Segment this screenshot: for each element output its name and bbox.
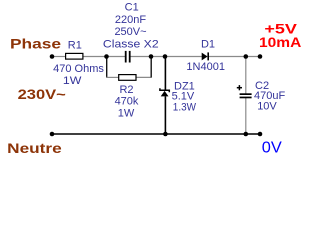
wire R2 loop left horizontal: [106, 76, 119, 78]
capacitor C1 plates: [125, 51, 127, 63]
svg-text:C1: C1: [125, 2, 139, 14]
node +5V terminal: [258, 54, 263, 59]
wire R2 loop right vertical: [150, 57, 152, 78]
resistor R1: [66, 53, 83, 59]
node junction DZ1 bottom: [163, 132, 168, 137]
wire top: C1 right plate to D1: [130, 56, 202, 58]
svg-text:10V: 10V: [257, 101, 277, 113]
svg-text:1W: 1W: [63, 75, 82, 87]
wire R2 loop right horizontal: [136, 76, 152, 78]
svg-text:470 Ohms: 470 Ohms: [53, 63, 104, 75]
svg-text:D1: D1: [201, 39, 215, 51]
wire top: D1 to +5V terminal: [209, 56, 260, 58]
wire bottom: Neutre rail: [52, 133, 260, 135]
node Neutre terminal: [50, 132, 55, 137]
svg-text:R1: R1: [68, 40, 82, 52]
wire top: R1 to C1 left plate: [83, 56, 126, 58]
node junction C2 bottom: [244, 132, 249, 137]
resistor R2: [119, 75, 136, 81]
svg-text:Phase: Phase: [10, 35, 61, 51]
svg-text:Neutre: Neutre: [7, 140, 62, 156]
svg-text:250V~: 250V~: [114, 26, 146, 38]
zener diode DZ1: [160, 88, 169, 92]
wire DZ1 bottom lead: [164, 96, 166, 134]
node junction R1/C1/R2: [104, 54, 109, 59]
C2 plus sign: [237, 87, 242, 89]
svg-text:1N4001: 1N4001: [186, 61, 225, 73]
capacitor C2 plates: [240, 93, 252, 95]
node Phase terminal: [50, 54, 55, 59]
svg-text:10mA: 10mA: [259, 34, 301, 50]
wire top: Phase terminal to R1: [52, 56, 66, 58]
diode D1: [202, 53, 208, 61]
svg-text:230V~: 230V~: [18, 86, 66, 102]
svg-text:Classe X2: Classe X2: [103, 38, 159, 50]
svg-text:1.3W: 1.3W: [173, 101, 197, 113]
node junction DZ1 top: [163, 54, 168, 59]
wire R2 loop left vertical: [106, 57, 108, 78]
wire C2 top lead: [245, 57, 247, 94]
node junction C2 top: [244, 54, 249, 59]
node junction C1/R2 right: [149, 54, 154, 59]
svg-text:1W: 1W: [118, 108, 135, 120]
svg-text:0V: 0V: [262, 139, 283, 156]
svg-text:220nF: 220nF: [115, 14, 146, 26]
svg-text:470k: 470k: [115, 96, 139, 108]
wire DZ1 top lead: [164, 57, 166, 91]
svg-text:R2: R2: [119, 84, 133, 96]
node 0V terminal: [258, 132, 263, 137]
wire C2 bottom lead: [245, 98, 247, 134]
